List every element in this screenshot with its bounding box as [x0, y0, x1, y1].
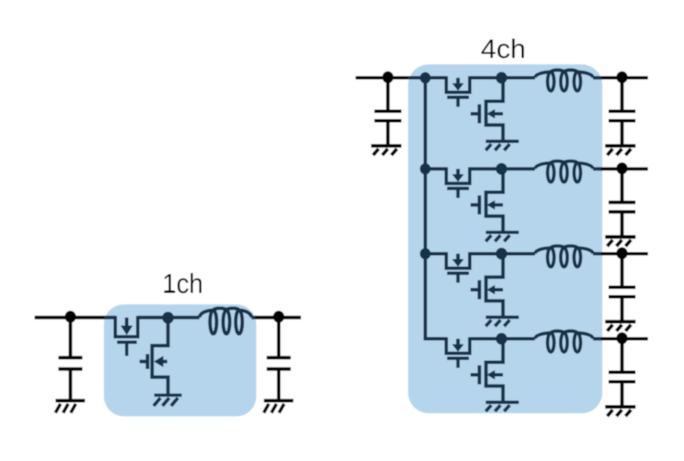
svg-text:1ch: 1ch: [162, 268, 203, 299]
svg-text:4ch: 4ch: [481, 34, 526, 64]
